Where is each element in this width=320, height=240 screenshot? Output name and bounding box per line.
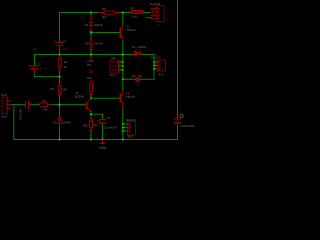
wire SV3 pin stubs xyxy=(123,124,128,131)
resistor R5 horizontal top xyxy=(99,7,119,19)
svg-text:BV1: BV1 xyxy=(2,93,8,97)
svg-text:BV1: BV1 xyxy=(2,114,8,118)
EL1 pin numbers xyxy=(119,58,121,70)
svg-text:TIP147: TIP147 xyxy=(126,95,136,99)
wire V2 left vertical net x=59.5 xyxy=(59,13,61,140)
svg-text:R6: R6 xyxy=(81,16,85,20)
svg-text:F1: F1 xyxy=(131,7,135,11)
connector SV2 right middle xyxy=(150,56,166,77)
svg-text:C2: C2 xyxy=(33,48,37,52)
wire GND drop x=14 xyxy=(13,105,15,140)
svg-text:10ALGY: 10ALGY xyxy=(150,56,161,60)
pin cross on node at (91,48.2) xyxy=(89,47,92,50)
capacitor C6 on V4 xyxy=(174,115,195,128)
pin cross on node at (91,30.2) xyxy=(89,29,92,32)
svg-text:100n: 100n xyxy=(62,47,69,51)
svg-text:1N4148: 1N4148 xyxy=(62,121,71,124)
svg-text:D5: D5 xyxy=(85,42,89,46)
SV3 pin numbers xyxy=(124,120,126,131)
svg-text:BC548: BC548 xyxy=(75,95,84,99)
wire V3 main vertical x=123 xyxy=(122,13,124,140)
resistor R1 on W5 xyxy=(40,99,51,111)
node junction dots xyxy=(58,11,155,140)
svg-text:5W: 5W xyxy=(93,124,97,127)
svg-text:1N4007: 1N4007 xyxy=(137,45,147,49)
svg-text:C2: C2 xyxy=(36,63,40,67)
svg-text:D2: D2 xyxy=(132,45,136,49)
diode D2 on W3 xyxy=(132,45,147,56)
wire W1 top horizontal net xyxy=(60,12,151,14)
svg-text:D1: D1 xyxy=(53,120,57,124)
svg-text:R8: R8 xyxy=(87,63,91,67)
svg-text:I/O: I/O xyxy=(111,56,116,60)
wire C5 branch y=114 xyxy=(91,114,103,139)
svg-text:R3: R3 xyxy=(50,87,54,91)
svg-text:1N4148: 1N4148 xyxy=(94,43,103,46)
wire SV1 stub nets xyxy=(143,13,152,18)
svg-text:TIP142: TIP142 xyxy=(126,28,136,32)
transistor T2 TIP147 lower xyxy=(120,92,135,108)
pin cross on node at (91,17.5) xyxy=(89,16,92,19)
svg-text:EL1: EL1 xyxy=(110,73,116,77)
wire W5 bottom-left horizontal y=104.6 xyxy=(11,104,86,106)
svg-text:R5: R5 xyxy=(102,7,106,11)
capacitor C3 on x=59.5 xyxy=(55,39,69,51)
wire V4 right vertical x=177.5 xyxy=(177,0,179,140)
diode D3 on W4 xyxy=(132,74,142,86)
svg-text:10k: 10k xyxy=(43,107,48,111)
svg-text:0R22: 0R22 xyxy=(83,124,90,127)
fuse F1 xyxy=(131,7,143,19)
svg-text:GND: GND xyxy=(99,146,107,150)
wire EL1 pin stubs xyxy=(119,62,123,70)
ground symbol GND xyxy=(99,140,107,151)
diode D4 1N4148 xyxy=(85,22,103,29)
svg-text:1,5A: 1,5A xyxy=(131,14,137,18)
wire T2 base net y=98.3 xyxy=(91,97,119,99)
svg-text:R2: R2 xyxy=(64,60,68,64)
capacitor C1 on W5 xyxy=(19,101,32,120)
svg-text:220uF/63V: 220uF/63V xyxy=(181,124,196,128)
svg-text:1N4148: 1N4148 xyxy=(94,24,103,27)
diode D5 1N4148 xyxy=(85,42,103,47)
wire W3 mid horizontal net y=54.5 xyxy=(35,55,155,80)
capacitor C2 electrolytic x=34.5 xyxy=(29,48,49,74)
svg-text:SV3: SV3 xyxy=(128,135,134,139)
svg-text:C3: C3 xyxy=(62,39,66,43)
resistor R4 emitter x=91 xyxy=(83,118,98,131)
capacitor C5 electrolytic x=102.5 xyxy=(97,116,117,130)
connector SV1 top right xyxy=(150,2,164,26)
svg-text:MAGNC: MAGNC xyxy=(126,118,136,122)
diode D1 x=59.5 xyxy=(53,118,71,126)
svg-text:SV1: SV1 xyxy=(156,22,162,26)
svg-text:10uF 100V: 10uF 100V xyxy=(36,67,49,71)
svg-text:D4: D4 xyxy=(85,23,89,27)
transistor T3 BC548 xyxy=(75,91,91,112)
pin cross on node at (91,40.9) xyxy=(89,39,92,42)
svg-text:12V: 12V xyxy=(137,74,142,78)
svg-text:220uF/50V: 220uF/50V xyxy=(104,126,118,130)
resistor R8 10k vertical x=91 xyxy=(87,63,93,95)
wire column x=91 segments xyxy=(90,13,92,140)
wire bottom bus y=139.5 xyxy=(14,139,178,141)
svg-text:C1: C1 xyxy=(27,108,31,112)
svg-text:10uF 63V: 10uF 63V xyxy=(19,109,23,121)
connector BV1 left xyxy=(2,93,11,118)
connector EL1 middle xyxy=(110,56,119,77)
SV2 pin numbers xyxy=(155,58,157,69)
wire W4 y=79.3 xyxy=(123,78,154,80)
supply symbol +35V at (91,57.3) xyxy=(87,56,94,63)
wire branch C2 x=34.5 xyxy=(35,55,60,77)
resistor R2 vertical x=60 xyxy=(58,56,68,70)
transistor T1 TIP142 xyxy=(120,25,136,40)
resistor R3 vertical x=60 lower xyxy=(50,83,67,95)
svg-text:10k: 10k xyxy=(62,87,67,91)
wire T1 base net y=32.5 xyxy=(91,32,119,34)
svg-text:PL23NS: PL23NS xyxy=(150,2,161,6)
connector SV3 bottom xyxy=(126,118,136,139)
wire SV2 pin stubs x=154 xyxy=(154,62,158,69)
svg-text:1k: 1k xyxy=(64,65,68,69)
svg-text:SV2: SV2 xyxy=(158,73,164,77)
svg-text:D3: D3 xyxy=(132,74,136,78)
svg-text:C5: C5 xyxy=(107,116,111,120)
svg-text:R1: R1 xyxy=(43,99,47,103)
svg-text:4k7: 4k7 xyxy=(102,15,107,19)
svg-text:10k: 10k xyxy=(87,76,92,80)
